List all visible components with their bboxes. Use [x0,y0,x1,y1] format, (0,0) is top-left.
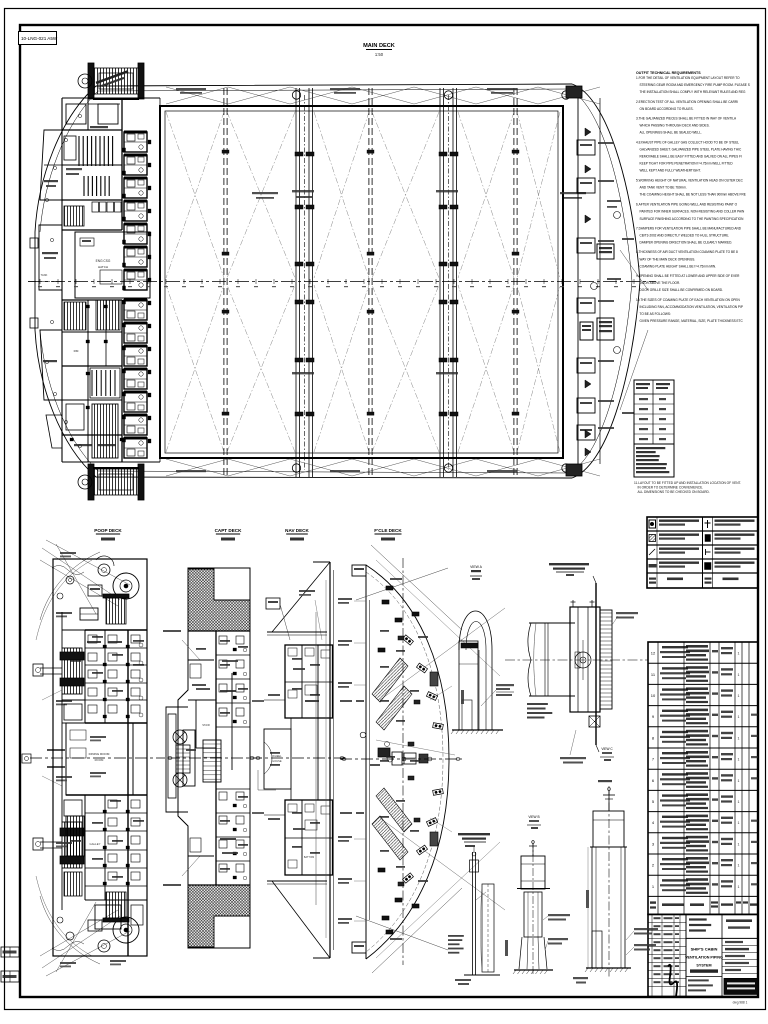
svg-text:CAPT DECK: CAPT DECK [215,528,242,533]
svg-text:KEEP TIGHT FOR PIPE PENETRATIO: KEEP TIGHT FOR PIPE PENETRATION t=4.75mm… [640,162,734,166]
poop rooms upper block [85,629,147,631]
mooring lines top-left [42,548,120,600]
fcle radiating mooring lines [371,545,462,630]
svg-text:VENTILATION PIPING: VENTILATION PIPING [685,955,723,959]
svg-text:12: 12 [651,651,656,656]
bow label boxes [597,244,614,259]
fcle center small symbols [360,732,366,738]
svg-text:MAIN DECK: MAIN DECK [363,43,395,49]
walkway band top zigzag [166,87,228,104]
svg-text:POOP DECK: POOP DECK [94,528,122,533]
svg-text:8.THICKNESS OF AIR DUCT VENTIL: 8.THICKNESS OF AIR DUCT VENTILATION COAM… [636,250,738,254]
signature blob [668,965,677,997]
vent head circles on walkway [292,91,300,99]
nav rooms upper [285,645,333,718]
svg-text:GALVANIZED SHEET. GALVANIZED P: GALVANIZED SHEET. GALVANIZED PIPE STEEL … [640,147,742,151]
shaft dims [586,890,589,908]
svg-text:F'CLE DECK: F'CLE DECK [374,528,402,533]
nav mid connection [290,718,292,729]
captain deck hatched bottom L [188,885,250,947]
small deckhouse top [80,608,98,620]
view A labels [496,684,514,686]
coaming size table in notes [634,380,674,444]
svg-text:1: 1 [738,885,740,889]
poop deck outline [53,559,147,956]
hold bay diagonal braces [166,112,224,278]
scattered room labels bottom plans [92,636,103,638]
mushroom head box [521,856,545,889]
cabin column upper [124,132,147,152]
svg-text:WAY OF THE MAIN DECK OPENINGS.: WAY OF THE MAIN DECK OPENINGS. [640,257,696,261]
base and labels [464,974,500,976]
svg-text:TO BE AS FOLLOWS:: TO BE AS FOLLOWS: [640,312,671,316]
svg-text:BATT RM: BATT RM [304,856,314,859]
title block [648,914,758,996]
svg-text:WELL KEPT AND FULLY WEATHERTIG: WELL KEPT AND FULLY WEATHERTIGHT. [640,169,701,173]
accommodation outer walls [61,98,63,462]
fcle deck arc [366,565,449,959]
walkway band bottom zigzag [166,459,228,476]
poop outline thicker [53,559,147,956]
bulkhead line [595,583,597,745]
captain leader labels [182,640,200,660]
nav deck outline right edge [329,562,331,958]
base [586,967,631,969]
capt deck stair hatch [203,740,221,782]
hull outline main deck [35,84,640,478]
svg-text:DAMPER OPENING DIRECTION SHALL: DAMPER OPENING DIRECTION SHALL BE CLEARL… [640,241,733,245]
svg-text:1: 1 [738,673,740,677]
svg-text:SHIP'S CABIN: SHIP'S CABIN [691,946,718,951]
extra ticks on dashed bands main deck [222,150,229,153]
svg-text:9.OPENING SHALL BE FITTED AT L: 9.OPENING SHALL BE FITTED AT LOWER AND U… [636,274,740,278]
midship open room (engine casing hatch) [75,232,150,298]
fcle chain ramp hatched lower [372,816,408,860]
svg-text:WHEEL: WHEEL [272,754,282,758]
mushroom neck [524,892,542,937]
svg-text:1: 1 [738,652,740,656]
svg-text:2.ERECTION TEST OF ALL VENTILA: 2.ERECTION TEST OF ALL VENTILATION OPENI… [636,100,738,104]
fcle centerline [340,758,462,760]
corridor door ticks [148,140,151,144]
nav centerline [250,757,345,759]
finial cross [608,790,610,811]
poop left strip rooms [62,629,85,631]
svg-text:1: 1 [738,779,740,783]
fcle upper scattered fittings [382,600,389,604]
drawing number box top-left [19,32,57,45]
svg-text:1: 1 [738,864,740,868]
windlass top (stern mooring winch) [93,68,139,94]
mushroom finial [532,843,534,856]
svg-text:10.THE SIZES OF COAMING PLATE: 10.THE SIZES OF COAMING PLATE OF EACH VE… [636,298,740,302]
svg-text:WHICH PASSING THROUGH DECK AND: WHICH PASSING THROUGH DECK AND SIDES. [640,124,710,128]
inner deck line [40,89,570,232]
centerline end marks bottom plans [168,756,172,760]
leader lines on fcle labels [430,686,452,700]
poop centerline [30,757,165,759]
svg-text:dwg 988 1: dwg 988 1 [733,1001,748,1005]
svg-text:VIEW C: VIEW C [601,747,613,751]
fan labels left [527,703,548,705]
accommodation rooms lower [62,299,122,301]
svg-text:ALL DIMENSIONS TO BE CHECKED O: ALL DIMENSIONS TO BE CHECKED ON BOARD. [638,490,710,494]
nav deck slant top/bottom [272,562,330,632]
captain deck outline [178,568,250,948]
poop winch bottom [113,917,139,943]
poop deck scattered labels [56,612,72,614]
svg-text:COAMING PLATE HEIGHT SHALL BE: COAMING PLATE HEIGHT SHALL BE t=4.75mm M… [640,264,717,268]
fcle left edge boxes [352,565,366,576]
bow small arrows/marks [585,128,591,136]
svg-text:SURFACE FINISHING ACCORDING TO: SURFACE FINISHING ACCORDING TO THE PAINT… [640,217,745,221]
forecastle structures [577,92,579,470]
outfit technical requirements notes [636,71,750,323]
legend table [647,517,758,588]
svg-text:PAINTED FOR INNER SURFACES. NO: PAINTED FOR INNER SURFACES. NON-RESISTIN… [640,210,745,214]
capt labels [196,688,210,690]
svg-text:ON BOARD ACCORDING TO RULES.: ON BOARD ACCORDING TO RULES. [640,107,694,111]
longitudinal dashed lines (hatch side girders) [223,88,225,477]
svg-text:OUTFIT TECHNICAL REQUIREMENTS: OUTFIT TECHNICAL REQUIREMENTS [636,71,701,75]
capt deck left bump and fan symbols [166,707,188,812]
ship centerline [28,281,656,283]
hull-side rooms lower [40,330,62,400]
svg-text:10: 10 [651,693,656,698]
hold hatch coaming rectangle [160,106,563,458]
galley rooms lower [84,795,86,900]
mushroom labels right [548,914,570,916]
svg-text:ENG CSG: ENG CSG [96,259,111,263]
captain rooms [188,630,250,632]
fairlead block lower [62,822,82,868]
svg-text:VIEW B: VIEW B [528,815,539,819]
svg-text:DINING ROOM: DINING ROOM [89,752,110,756]
cabin column lower [124,300,147,320]
fcle inner dark squares mid arc [430,672,438,686]
poop top-left chain symbols [66,576,74,584]
fan duct cylinder [528,623,531,696]
fcle vertical chain line [402,558,404,965]
svg-text:1: 1 [738,694,740,698]
svg-text:DOOR GRILLE SIZE SHALL BE CONF: DOOR GRILLE SIZE SHALL BE CONFIRMED ON B… [640,288,724,292]
svg-text:HOUSE: HOUSE [272,759,281,763]
last note paragraph [634,481,741,494]
fan labels right [616,612,638,614]
svg-text:TANK: TANK [41,273,48,277]
svg-text:STAIR: STAIR [202,723,210,727]
mooring lines bottom-left [42,916,120,968]
top box [593,811,624,847]
small deck fittings left [30,238,38,248]
capt left column rooms [188,659,214,661]
wheelhouse [264,729,291,789]
fcle bollards lower [403,873,414,883]
svg-text:GALLEY: GALLEY [90,842,101,846]
fcle windlass center cluster [378,748,390,757]
svg-text:1: 1 [738,821,740,825]
svg-text:1.FOR THE DETAIL OF VENTILATIO: 1.FOR THE DETAIL OF VENTILATION EQUIPMEN… [636,76,740,80]
svg-text:1: 1 [738,758,740,762]
svg-text:11.LAYOUT TO BE FITTED UP AND: 11.LAYOUT TO BE FITTED UP AND INSTALLATI… [634,481,741,485]
nav bridge wing lines [264,699,285,701]
BOM parts table [648,642,758,914]
captain deck hatched top L [188,569,250,631]
fcle chain ramp hatched upper [372,658,408,702]
svg-text:IN ORDER TO DETERMINE CONVENIE: IN ORDER TO DETERMINE CONVENIENCE. [638,486,704,490]
note block under table [634,444,674,477]
svg-text:THE INSTALLATION SHALL COMPLY: THE INSTALLATION SHALL COMPLY WITH RELEV… [640,90,747,94]
svg-text:1: 1 [738,800,740,804]
svg-text:AND TANK VENT TO BE 760mm.: AND TANK VENT TO BE 760mm. [640,185,687,189]
louver panel [600,610,612,709]
transverse bulkhead cluster 1 [295,88,297,477]
hull curves near poop deck [40,552,100,620]
svg-text:ALL OPENINGS SHALL BE SEALED W: ALL OPENINGS SHALL BE SEALED WELL. [640,131,702,135]
shaft [592,847,625,968]
fan casing box [570,607,600,712]
svg-text:NAV DECK: NAV DECK [285,528,309,533]
fairlead block upper [62,648,82,694]
nav deck front edges [267,631,327,633]
pipe [472,852,474,975]
svg-text:6.AFTER VENTILATION PIPE GOING: 6.AFTER VENTILATION PIPE GOING WELL AND … [636,203,738,207]
svg-text:1: 1 [738,842,740,846]
fan detail small box bottom [589,716,600,727]
view A arch outer [459,611,492,730]
lower room door ticks [86,305,90,308]
poop winch top [113,573,139,599]
fan centerline [505,659,648,661]
svg-text:VIEW A: VIEW A [470,565,482,569]
labels above hold [176,88,206,90]
fcle bollards upper [403,635,414,645]
labels left bottom [573,977,588,979]
view A base [452,729,503,731]
right panel [482,884,494,972]
fcle stem line [365,565,367,959]
svg-text:7.DAMPERS FOR VENTILATION PIPE: 7.DAMPERS FOR VENTILATION PIPE SHALL BE … [636,226,742,230]
gym equipment stripes [78,136,80,166]
dining room [66,723,133,795]
svg-text:ROOM: ROOM [95,758,104,762]
top bolts [572,600,574,607]
labels right [634,928,658,930]
laundry row [92,202,99,212]
shaft sub-box [592,931,602,968]
svg-text:REMOVABLE SHALL BE EASY FITTED: REMOVABLE SHALL BE EASY FITTED AND GALVE… [640,155,743,159]
svg-text:CB/T3-2002 AND DIRECTLY WELDED: CB/T3-2002 AND DIRECTLY WELDED TO HULL S… [640,234,730,238]
svg-text:10-LNG-021 A5W: 10-LNG-021 A5W [21,36,58,41]
windlass bottom [93,469,139,495]
svg-text:STEERING GEAR ROOM AND EMERGEN: STEERING GEAR ROOM AND EMERGENCY FIRE PU… [640,83,750,87]
left margin stamp boxes [1,947,19,957]
svg-text:1: 1 [738,715,740,719]
svg-text:1: 1 [738,736,740,740]
svg-text:HATCH: HATCH [98,265,108,269]
svg-text:THE COAMING HEIGHT SHALL BE NO: THE COAMING HEIGHT SHALL BE NOT LESS THA… [640,193,746,197]
svg-text:SYSTEM: SYSTEM [696,963,711,967]
hull-side rooms upper [40,130,62,200]
fcle extra marks [398,636,404,640]
captain centerline [168,757,262,759]
svg-text:1:50: 1:50 [375,52,384,57]
nav deck extra [305,685,317,695]
fan labels below [560,757,586,759]
view A bulwark box [459,641,478,730]
svg-text:DOOR ABOVE THE FLOOR.: DOOR ABOVE THE FLOOR. [640,281,681,285]
svg-text:4.EXHAUST PIPE OF GALLEY GAS C: 4.EXHAUST PIPE OF GALLEY GAS COLLECT HOO… [636,140,739,144]
accommodation rooms upper [62,129,122,131]
mushroom base [514,969,553,971]
svg-text:3.THE GALVANIZED PIECES SHALL: 3.THE GALVANIZED PIECES SHALL BE FITTED … [636,117,737,121]
nav rooms lower [285,800,333,875]
fan duct flanges [544,623,546,696]
nav deck long inner vertical [315,612,317,905]
svg-text:5.WORKING HEIGHT OF NATURAL VE: 5.WORKING HEIGHT OF NATURAL VENTILATION … [636,178,744,182]
svg-text:RM: RM [74,349,79,353]
svg-text:GIVEN PRESSURE RANGE, MATERIAL: GIVEN PRESSURE RANGE, MATERIAL, SIZE, PL… [640,319,744,323]
nav top small box [266,598,280,609]
nav lower-left platform [258,770,276,790]
mushroom legs [519,937,522,969]
transverse bulkhead cluster 2 [439,88,441,477]
portholes along stern hull [45,198,48,201]
svg-text:INCLUDING FAN, ACCOMMODATION V: INCLUDING FAN, ACCOMMODATION VENTILATION… [640,305,743,309]
poop stairs [176,745,190,773]
